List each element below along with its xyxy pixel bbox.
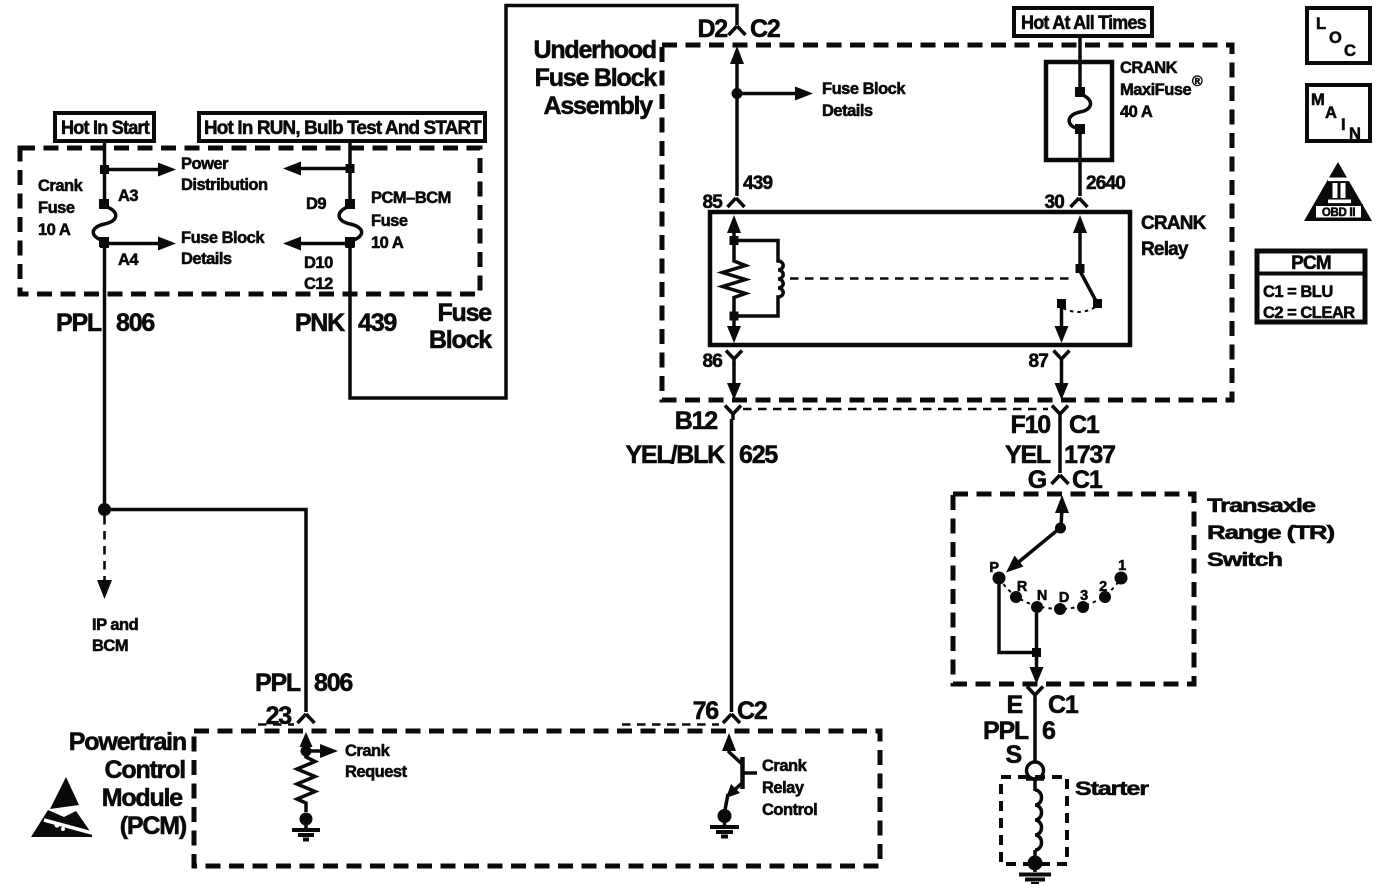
svg-text:Hot In Start: Hot In Start: [61, 118, 150, 139]
wire: pin 87 to F10: [1055, 364, 1069, 400]
wire: pin 86 to B12: [727, 364, 741, 400]
legend box LOC: [1307, 8, 1370, 63]
connector symbol at B12: [725, 406, 741, 421]
junction node at TR output: [1032, 648, 1041, 657]
svg-text:76: 76: [693, 697, 719, 725]
connector symbol at G: [1052, 475, 1069, 484]
svg-text:D9: D9: [306, 195, 326, 213]
feed label box "Hot In Start": [55, 113, 154, 141]
svg-text:PCM–BCM: PCM–BCM: [371, 189, 451, 207]
svg-text:Details: Details: [181, 250, 232, 268]
thin dashed connector line at 76: [622, 723, 719, 726]
svg-text:40 A: 40 A: [1120, 103, 1153, 121]
svg-text:P: P: [989, 560, 999, 576]
relay box: CRANK Relay: [710, 212, 1130, 345]
svg-text:1737: 1737: [1064, 441, 1115, 469]
TR contact 2: [1099, 591, 1111, 603]
inductor: starter solenoid winding: [1035, 790, 1042, 850]
svg-text:3: 3: [1080, 588, 1088, 604]
resistor: crank request pull-down: [297, 751, 315, 812]
switch blade tip node: [1093, 299, 1102, 308]
wire: P contact to junction: [999, 584, 1032, 653]
connector symbol at 85: [728, 198, 745, 207]
svg-text:Module: Module: [102, 784, 184, 812]
wire from S terminal into starter: [1033, 779, 1037, 791]
legend symbol OBD II triangle: [1304, 162, 1372, 221]
transistor Q: crank relay control driver: [725, 752, 757, 810]
svg-text:Crank: Crank: [38, 177, 84, 195]
svg-text:625: 625: [739, 441, 778, 469]
resistor: relay coil suppression resistor: [723, 245, 746, 316]
svg-text:BCM: BCM: [92, 637, 128, 655]
fuse: Crank Fuse element: [93, 199, 116, 247]
svg-text:D2: D2: [697, 15, 727, 43]
TR contact D: [1054, 603, 1066, 615]
thin dashed connector line at B12/F10: [743, 408, 1048, 411]
svg-text:C: C: [1344, 42, 1356, 60]
svg-text:Fuse: Fuse: [437, 299, 492, 327]
arrow to Fuse Block Details (left): [105, 237, 177, 251]
svg-text:Hot At All Times: Hot At All Times: [1021, 13, 1146, 34]
svg-text:806: 806: [116, 309, 154, 337]
wire: PPL 6 down to starter solenoid S: [1033, 700, 1037, 762]
junction node: relay coil top: [730, 236, 739, 245]
junction D9 node: [346, 164, 355, 173]
svg-text:10 A: 10 A: [371, 234, 404, 252]
svg-text:Range (TR): Range (TR): [1207, 523, 1335, 544]
wire: battery feed down to CRANK MaxiFuse: [1078, 36, 1082, 92]
ground at transistor emitter: [710, 809, 739, 837]
wire: PNK 439 route down right and up to D2: [350, 6, 737, 399]
svg-text:B12: B12: [675, 407, 718, 435]
svg-text:C12: C12: [304, 275, 333, 293]
fuse: PCM-BCM Fuse element: [339, 199, 362, 247]
svg-text:Control: Control: [105, 756, 186, 784]
svg-text:2640: 2640: [1086, 173, 1125, 194]
svg-text:Underhood: Underhood: [533, 36, 656, 64]
svg-text:PCM: PCM: [1291, 253, 1331, 274]
svg-text:Assembly: Assembly: [543, 92, 653, 120]
svg-text:G: G: [1028, 466, 1046, 494]
dashed arc through contacts: [999, 578, 1121, 609]
thin dashed connector line at 23: [258, 723, 294, 726]
svg-text:1: 1: [1118, 558, 1126, 574]
svg-text:I: I: [1341, 116, 1345, 134]
svg-text:(PCM): (PCM): [120, 812, 187, 840]
svg-text:10 A: 10 A: [38, 221, 71, 239]
svg-text:C1: C1: [1072, 466, 1103, 494]
ground at crank request resistor: [292, 813, 320, 840]
legend table PCM connector colors: [1257, 251, 1365, 322]
junction node: relay coil bottom: [730, 312, 739, 321]
svg-text:Hot In RUN, Bulb Test And STAR: Hot In RUN, Bulb Test And START: [204, 118, 482, 139]
svg-text:L: L: [1316, 15, 1326, 33]
wire: YEL 1737 down to TR switch pin G: [1058, 419, 1062, 473]
svg-text:Request: Request: [345, 763, 408, 781]
wire: splice to PCM pin 23: [105, 510, 307, 713]
TR wiper pivot node: [1055, 523, 1066, 534]
svg-text:A3: A3: [118, 187, 138, 205]
svg-text:PPL: PPL: [56, 309, 102, 337]
svg-text:Power: Power: [181, 155, 229, 173]
svg-text:87: 87: [1028, 351, 1048, 372]
svg-text:MaxiFuse: MaxiFuse: [1120, 81, 1192, 99]
svg-text:Relay: Relay: [762, 779, 805, 797]
TR contact 3: [1077, 601, 1089, 613]
terminal ring at S: [1027, 762, 1044, 779]
arrow into relay pin 85: [727, 215, 741, 241]
dashed arrow to IP and BCM: [97, 516, 112, 599]
dashed box: Starter: [1001, 777, 1067, 864]
tick at starter box entry: [1026, 777, 1044, 781]
TR wiper arm arrow toward P: [1006, 528, 1060, 573]
svg-text:Crank: Crank: [762, 757, 808, 775]
legend box MAIN: [1307, 85, 1370, 143]
svg-text:S: S: [1006, 741, 1022, 769]
ESD symbol: [31, 777, 92, 837]
junction A3 node: [100, 165, 109, 174]
wire: circuit 439 down to relay pin 85: [735, 94, 739, 197]
svg-text:C1: C1: [1069, 411, 1100, 439]
junction A4 node: [100, 239, 109, 248]
dashed box: Underhood Fuse Block Assembly: [662, 45, 1232, 400]
TR contact R: [1010, 591, 1022, 603]
connector symbol at 76: [723, 714, 740, 723]
svg-text:M: M: [1311, 91, 1324, 109]
svg-text:Fuse: Fuse: [38, 199, 75, 217]
arrow to Crank Request: [306, 744, 338, 758]
switch blade: [1080, 271, 1096, 301]
svg-text:Fuse Block: Fuse Block: [535, 64, 658, 92]
arrow from coil to relay pin 86: [727, 316, 741, 343]
connector symbol at E: [1027, 687, 1043, 702]
connector symbol at 30: [1071, 198, 1088, 207]
svg-text:C2 = CLEAR: C2 = CLEAR: [1263, 304, 1355, 322]
wire: Hot In Start feed down to crank fuse: [103, 141, 107, 204]
junction node: PPL 806 splice: [98, 503, 111, 516]
svg-text:439: 439: [358, 309, 396, 337]
svg-text:R: R: [1017, 579, 1028, 595]
svg-text:CRANK: CRANK: [1120, 59, 1178, 77]
connector symbol at 87: [1054, 351, 1070, 366]
svg-text:439: 439: [743, 173, 773, 194]
wire: N contact down: [1035, 613, 1039, 653]
arrow to Power Distribution (left): [105, 163, 177, 177]
svg-text:E: E: [1007, 691, 1023, 719]
TR contact P: [993, 572, 1006, 585]
connector symbol at 23: [298, 714, 315, 723]
ground at starter: [1019, 850, 1051, 884]
svg-text:O: O: [1329, 29, 1342, 47]
svg-text:PPL: PPL: [255, 669, 301, 697]
junction node: crank request tap: [301, 746, 312, 757]
arrow into PCM pin 23: [300, 732, 313, 752]
svg-text:806: 806: [314, 669, 352, 697]
svg-text:Crank: Crank: [345, 742, 391, 760]
wire: Hot In RUN feed down: [348, 141, 352, 204]
svg-text:D: D: [1059, 590, 1069, 606]
arrow from D10 to Fuse Block Details (pointing left): [283, 237, 350, 251]
svg-text:Fuse: Fuse: [371, 212, 408, 230]
arrow from D9 to Power Distribution (pointing left): [283, 162, 350, 176]
svg-text:A: A: [1325, 104, 1337, 122]
svg-text:C2: C2: [750, 15, 780, 43]
svg-text:2: 2: [1099, 579, 1107, 595]
arrow to Fuse Block Details (right): [737, 87, 813, 101]
arrow into fuse block from D2: [730, 46, 744, 94]
TR contact 1: [1115, 572, 1128, 585]
arrow into TR switch from G: [1055, 495, 1069, 528]
svg-text:Details: Details: [822, 102, 873, 120]
svg-text:D10: D10: [304, 254, 333, 272]
junction node: fuse block details tap: [732, 88, 743, 99]
wire: YEL/BLK 625 down to PCM pin 76: [730, 419, 734, 712]
svg-text:Starter: Starter: [1075, 779, 1150, 800]
svg-text:A4: A4: [118, 251, 139, 269]
dashed box: Transaxle Range Switch: [953, 494, 1194, 684]
arrow into relay pin 30: [1073, 215, 1087, 266]
svg-text:YEL: YEL: [1005, 441, 1051, 469]
wire: PPL 806 from fuse A4 down: [103, 246, 107, 511]
switch: relay armature pivot: [1076, 264, 1085, 273]
svg-text:IP and: IP and: [92, 616, 138, 634]
svg-text:Transaxle: Transaxle: [1207, 496, 1315, 517]
svg-text:C1 = BLU: C1 = BLU: [1263, 283, 1333, 301]
svg-text:86: 86: [702, 351, 722, 372]
fuse box: CRANK MaxiFuse: [1046, 62, 1112, 160]
fuse: CRANK MaxiFuse element: [1069, 87, 1090, 134]
svg-text:Fuse Block: Fuse Block: [822, 80, 906, 98]
connector D2/C2 symbol: [729, 26, 746, 35]
dashed actuation line from coil to switch: [790, 277, 1070, 280]
TR contact N: [1031, 601, 1043, 613]
arrow from contact to relay pin 87: [1055, 308, 1069, 343]
feed label box "Hot In RUN, Bulb Test And START": [199, 113, 485, 141]
dashed box: Powertrain Control Module: [194, 731, 880, 866]
dashed box: fuse block detail (left): [20, 148, 480, 294]
junction D10 node: [346, 239, 355, 248]
svg-text:C2: C2: [737, 697, 767, 725]
label box "Hot At All Times": [1014, 8, 1152, 36]
inductor: relay coil winding: [734, 241, 783, 317]
svg-text:N: N: [1349, 125, 1360, 143]
svg-text:Control: Control: [762, 801, 817, 819]
arrow from junction to TR pin E: [1030, 657, 1044, 684]
wire: circuit 2640 down to relay pin 30: [1078, 129, 1082, 196]
svg-text:C1: C1: [1048, 691, 1079, 719]
svg-text:Block: Block: [429, 326, 492, 354]
svg-text:N: N: [1037, 588, 1047, 604]
svg-text:PNK: PNK: [295, 309, 345, 337]
svg-text:YEL/BLK: YEL/BLK: [625, 441, 725, 469]
svg-text:Fuse Block: Fuse Block: [181, 229, 265, 247]
arrow into PCM pin 76 (transistor collector): [722, 733, 736, 753]
svg-text:OBD II: OBD II: [1322, 207, 1355, 219]
dotted travel arc between contacts: [1063, 306, 1097, 312]
svg-text:Relay: Relay: [1141, 239, 1189, 260]
switch fixed contact node (pin 87): [1057, 299, 1066, 308]
connector symbol at 86: [726, 351, 742, 366]
svg-text:CRANK: CRANK: [1141, 213, 1207, 234]
svg-text:Distribution: Distribution: [181, 176, 268, 194]
svg-text:F10: F10: [1011, 411, 1051, 439]
svg-text:6: 6: [1042, 717, 1055, 745]
svg-text:®: ®: [1192, 74, 1203, 90]
connector symbol at F10: [1052, 406, 1068, 421]
svg-text:Powertrain: Powertrain: [69, 728, 186, 756]
svg-text:Switch: Switch: [1207, 550, 1282, 571]
